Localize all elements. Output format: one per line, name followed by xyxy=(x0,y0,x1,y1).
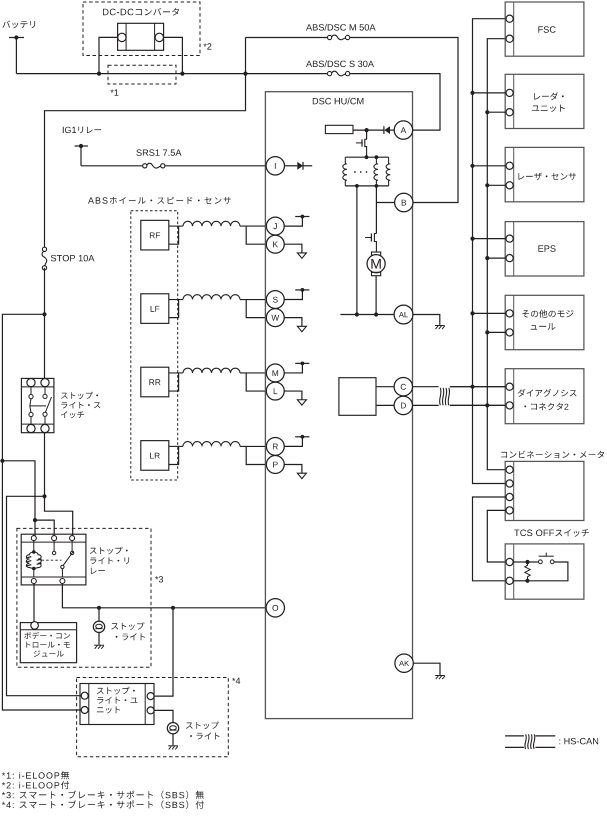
pin1 EPS xyxy=(506,235,513,242)
diode I xyxy=(285,165,298,167)
terminal S xyxy=(266,291,284,309)
pin2 EPS xyxy=(506,255,513,262)
wire branch to stop light unit B+ xyxy=(2,314,81,710)
*3 dashed box SBS無 xyxy=(17,528,151,667)
pin TCS 1 xyxy=(506,558,513,565)
wire HS-CAN bus line 1 xyxy=(473,19,507,484)
ground shield RF xyxy=(297,253,306,258)
wire switch to relay contact xyxy=(45,496,73,538)
relay contact xyxy=(53,541,55,552)
wire pin1 レーダ・ユニット xyxy=(473,92,507,94)
node pin2 レーダ・ユニット xyxy=(485,110,489,114)
node pin1 レーダ・ユニット xyxy=(470,91,474,95)
wire D out xyxy=(413,404,507,406)
pin2 レーダ・ユニット xyxy=(506,109,513,116)
wire S internal xyxy=(284,290,302,300)
unit box レーザ・センサ xyxy=(505,147,584,201)
wheel speed sensor RR xyxy=(141,367,169,397)
pin1 レーダ・ユニット xyxy=(506,89,513,96)
terminal K xyxy=(266,235,284,253)
unit box レーダ・ユニット xyxy=(505,74,584,128)
wire pin2 レーザ・センサ xyxy=(487,184,506,186)
terminal J xyxy=(266,217,284,235)
pin1 FSC xyxy=(506,15,513,22)
wire battery down xyxy=(15,38,17,74)
footnote *3 xyxy=(2,791,204,800)
unit box EPS xyxy=(505,222,584,276)
wire to stop light unit signal xyxy=(7,496,82,695)
label レーザ・センサ xyxy=(518,173,576,180)
ground shield LR xyxy=(297,473,306,478)
pin1 ダイアグノシス・コネクタ2 xyxy=(506,383,513,390)
wire pin1 レーザ・センサ xyxy=(473,165,507,167)
wire HS-CAN bus line 2 xyxy=(487,39,506,470)
TCS OFF switch box xyxy=(505,544,584,599)
node bus junction 1 xyxy=(97,72,101,76)
label FSC xyxy=(538,26,555,33)
pin2 レーザ・センサ xyxy=(506,182,513,189)
terminal M xyxy=(266,364,284,382)
terminal B xyxy=(376,202,394,204)
wire relay to BCM xyxy=(33,584,35,622)
node A circuit xyxy=(365,128,369,132)
wire to D xyxy=(376,404,394,406)
terminal AK xyxy=(395,654,413,672)
wire DC-DC left xyxy=(99,37,118,73)
solenoid coil assembly xyxy=(345,156,388,158)
wire unit to stop wire xyxy=(154,608,173,696)
wheel speed sensor RF xyxy=(141,220,169,250)
unit box ダイアグノシス・コネクタ2 xyxy=(505,369,584,424)
wheel speed sensor LR xyxy=(141,441,169,471)
ABS wheel speed sensors label xyxy=(88,197,231,204)
node pin2 EPS xyxy=(485,256,489,260)
wire relay coil feed 2 xyxy=(35,520,54,538)
wire pin1 EPS xyxy=(473,238,507,240)
node BCM branch xyxy=(0,459,4,463)
wire battery bus xyxy=(16,73,329,75)
ABS sensors dashed box xyxy=(131,211,178,480)
pin meter 2 xyxy=(506,480,513,487)
transistor Q2 xyxy=(375,203,377,234)
terminal L xyxy=(266,382,284,400)
terminal AL xyxy=(394,305,413,324)
node bus junction 2 xyxy=(180,72,184,76)
ground AK xyxy=(413,663,440,675)
node switch out xyxy=(42,494,46,498)
ground AL xyxy=(413,315,440,325)
wire BCM branch to relay xyxy=(2,461,35,538)
wire C out xyxy=(413,386,507,388)
wheel speed sensor LF xyxy=(141,294,169,324)
diode A xyxy=(384,126,390,134)
fuse STOP 10A xyxy=(42,247,46,251)
wire relay out xyxy=(62,584,265,608)
DC-DC converter dashed box *2 xyxy=(83,2,200,56)
ground lamp 1 xyxy=(94,645,104,649)
wire S30A to A xyxy=(350,74,440,131)
pin1 その他のモジュール xyxy=(506,310,513,317)
pin1 レーザ・センサ xyxy=(506,162,513,169)
ground shield RR xyxy=(297,400,306,405)
DC-DC converter component xyxy=(118,23,164,50)
wire switch down xyxy=(44,433,46,497)
node pin1 その他のモジュール xyxy=(470,311,474,315)
fuse ABS/DSC M 50A xyxy=(306,24,376,31)
stop light switch ストップ・ライト・スイッチ xyxy=(21,378,54,432)
node pin1 レーザ・センサ xyxy=(470,164,474,168)
fuse SRS1 7.5A xyxy=(136,149,181,156)
node pin2 その他のモジュール xyxy=(485,330,489,334)
node pin1 EPS xyxy=(470,237,474,241)
label EPS xyxy=(538,245,555,252)
node stop lamp 1 xyxy=(97,606,101,610)
node stop branch xyxy=(42,312,46,316)
unit box FSC xyxy=(505,2,584,56)
stop light lamp 2 ストップ・ライト xyxy=(167,723,178,734)
wire pin2 その他のモジュール xyxy=(487,331,506,333)
body control module ボデー・コントロール・モジュール xyxy=(20,623,76,663)
HS-CAN twist C/D xyxy=(439,383,450,408)
wire L internal xyxy=(284,391,302,400)
wire W internal xyxy=(284,318,302,327)
footnote *1 xyxy=(2,771,69,779)
terminal R xyxy=(266,437,284,455)
TCS internal switch xyxy=(528,561,539,563)
pin meter 4 xyxy=(506,507,513,514)
node diag 1 xyxy=(470,385,474,389)
wire STOP fuse down xyxy=(44,268,46,383)
wire DC-DC right xyxy=(164,37,183,73)
footnote *4 xyxy=(2,800,204,809)
wire LR twisted pair xyxy=(169,445,183,447)
ground shield LF xyxy=(297,326,306,331)
pin meter 3 xyxy=(506,493,513,500)
wire coil to AL xyxy=(356,186,358,315)
label その他のモジュール xyxy=(522,310,573,318)
wire RR twisted pair xyxy=(169,372,183,374)
motor M xyxy=(372,252,381,255)
terminal I xyxy=(266,157,284,175)
stop light lamp 1 ストップ・ライト xyxy=(98,608,100,621)
relay mechanical link xyxy=(42,559,62,561)
ground lamp 2 xyxy=(168,746,178,750)
wire diag pin stubs xyxy=(450,386,506,388)
pin2 その他のモジュール xyxy=(506,329,513,336)
label レーダ・ユニット xyxy=(534,92,564,100)
unit box その他のモジュール xyxy=(505,295,584,349)
wire pin2 レーダ・ユニット xyxy=(487,111,506,113)
wire LF twisted pair xyxy=(169,299,183,301)
wire meter pin3 to TCS xyxy=(473,497,507,581)
wire M50A to B xyxy=(350,38,458,203)
relay coil xyxy=(33,541,35,552)
terminal A xyxy=(394,121,412,139)
terminal W xyxy=(266,309,284,327)
combination meter box xyxy=(505,461,584,520)
wire meter pin4 to TCS xyxy=(487,510,506,562)
wire pin1 その他のモジュール xyxy=(473,312,507,314)
IG1 relay node xyxy=(63,127,101,134)
pin2 FSC xyxy=(506,35,513,42)
wire R internal xyxy=(284,437,302,447)
TCS internal resistor xyxy=(513,561,527,563)
internal block xyxy=(339,378,376,416)
wire pin2 EPS xyxy=(487,257,506,259)
label TCS OFFスイッチ xyxy=(514,529,589,537)
terminal D xyxy=(394,396,412,414)
wire unit to lamp 2 xyxy=(154,710,173,722)
wire resistor to node xyxy=(353,129,384,131)
wire bus to STOP fuse xyxy=(45,74,246,248)
node relay feed xyxy=(33,518,37,522)
terminal C xyxy=(394,378,412,396)
wire M internal xyxy=(284,363,302,373)
wire coil to motor branch xyxy=(375,186,377,203)
stop light unit ストップ・ライト・ユニット xyxy=(80,684,154,725)
*1 dashed box xyxy=(108,65,176,84)
terminal O xyxy=(265,607,267,609)
resistor internal xyxy=(325,125,353,133)
footnote *2 xyxy=(2,781,69,789)
pin meter 1 xyxy=(506,466,513,473)
wire RF twisted pair xyxy=(169,225,183,227)
pin2 ダイアグノシス・コネクタ2 xyxy=(506,402,513,409)
fuse ABS/DSC S 30A xyxy=(306,60,374,67)
wire to C xyxy=(376,386,394,388)
*4 dashed box SBS付 xyxy=(77,678,229,757)
label ダイアグノシス・コネクタ2 xyxy=(518,389,577,397)
terminal P xyxy=(266,456,284,474)
HS-CAN legend xyxy=(505,735,524,737)
DSC HU/CM box xyxy=(265,92,412,719)
wire AL xyxy=(340,314,394,316)
wire P internal xyxy=(284,464,302,473)
transistor Q1 xyxy=(366,130,368,139)
stop light relay ストップ・ライト・リレー xyxy=(21,534,86,585)
wire K internal xyxy=(284,244,302,253)
node bus junction 3 xyxy=(243,72,247,76)
label コンビネーション・メータ xyxy=(501,451,604,459)
node pin2 レーザ・センサ xyxy=(485,183,489,187)
node stop unit join xyxy=(171,606,175,610)
node diag 2 xyxy=(485,403,489,407)
wire J internal xyxy=(284,217,302,227)
battery バッテリ xyxy=(3,21,36,29)
pin TCS 2 xyxy=(506,577,513,584)
